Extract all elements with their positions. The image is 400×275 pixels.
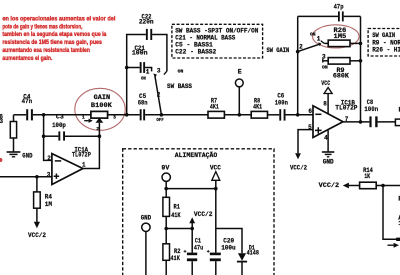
wire: VCC rail down xyxy=(215,180,217,252)
svg-text:aumentamos el gain.: aumentamos el gain. xyxy=(2,55,52,62)
wire: right rail x=360.5 xyxy=(360,16,362,122)
resistor R2 41K xyxy=(163,244,170,260)
svg-text:1K3: 1K3 xyxy=(0,118,3,126)
svg-text:OFF: OFF xyxy=(156,117,164,123)
plus sign IC1A xyxy=(54,174,59,179)
node: SW GAIN common on rail xyxy=(296,50,300,54)
node: VCC rail junction xyxy=(214,187,218,191)
node: E junction xyxy=(238,113,242,117)
svg-text:100p: 100p xyxy=(52,122,66,130)
svg-text:resistencia de 1M5 tiene mas g: resistencia de 1M5 tiene mas gain, pues xyxy=(2,39,102,46)
resistor R1 41K xyxy=(165,189,167,198)
svg-text:1: 1 xyxy=(146,68,150,75)
svg-text:1K: 1K xyxy=(364,173,371,181)
svg-text:47p: 47p xyxy=(334,3,344,11)
node: VCC/2 node xyxy=(190,227,194,231)
svg-text:1: 1 xyxy=(82,115,85,121)
VCC/2 up arrow xyxy=(191,223,193,229)
svg-text:TL072P: TL072P xyxy=(72,152,91,160)
svg-text:1M5: 1M5 xyxy=(334,33,347,41)
svg-text:41K: 41K xyxy=(171,212,181,220)
svg-text:B100K: B100K xyxy=(91,102,113,110)
node: C3 left junction xyxy=(42,134,46,138)
wire: pot wiper stem xyxy=(98,123,100,137)
pot wiper arrow xyxy=(96,118,104,123)
resistor R26 1M5 xyxy=(321,41,324,44)
svg-text:100n: 100n xyxy=(132,50,148,58)
svg-text:VCC: VCC xyxy=(321,80,330,88)
terminal E xyxy=(235,79,243,87)
resistor R8 4K1 xyxy=(251,111,267,118)
switch SW BASS lever xyxy=(153,74,157,78)
capacitor C5 68n xyxy=(140,109,142,120)
svg-text:VCC/2: VCC/2 xyxy=(28,232,46,240)
red mark left edge xyxy=(0,158,2,162)
svg-text:GND: GND xyxy=(22,152,32,160)
svg-text:C22 - BASS2: C22 - BASS2 xyxy=(175,49,216,57)
capacitor C22 220n xyxy=(146,29,148,40)
SW GAIN lever xyxy=(298,44,320,51)
wire: IC1A output up to C3/wiper node xyxy=(83,136,100,168)
svg-text:ON: ON xyxy=(310,32,316,38)
op-amp IC1B TL072P xyxy=(313,106,343,138)
node: SW BASS common junction xyxy=(160,113,164,117)
resistor R7 4K1 xyxy=(208,111,224,118)
svg-text:41K: 41K xyxy=(170,255,180,263)
node: output junction xyxy=(359,120,363,124)
wire: down from R14 junction to pot row xyxy=(383,186,400,240)
node: main/rail junction xyxy=(125,113,129,117)
resistor R4 1M xyxy=(36,177,38,192)
op-amp IC1A TL072P xyxy=(52,154,83,185)
svg-text:47n: 47n xyxy=(22,98,33,106)
capacitor C21 100n xyxy=(127,67,140,69)
svg-text:SW BASS: SW BASS xyxy=(167,83,192,91)
potentiometer GAIN B100K xyxy=(91,111,108,118)
svg-text:en los operacionales aumentas: en los operacionales aumentas el valor d… xyxy=(2,15,115,22)
capacitor 47p xyxy=(298,15,338,17)
svg-text:1M: 1M xyxy=(45,201,52,209)
svg-text:8: 8 xyxy=(323,101,327,108)
svg-text:1: 1 xyxy=(82,161,86,168)
node: C21 rail junction xyxy=(125,66,129,70)
svg-text:R26 - HIGH: R26 - HIGH xyxy=(372,47,400,55)
red ellipse around R26 xyxy=(313,25,360,48)
node: wiper/C3/output junction xyxy=(98,134,102,138)
capacitor C20 100u xyxy=(210,253,221,256)
plus mark C20 xyxy=(207,250,210,253)
svg-text:220n: 220n xyxy=(139,19,154,27)
node: 9V junction xyxy=(164,187,168,191)
svg-text:ALIMENTAÇÃO: ALIMENTAÇÃO xyxy=(175,150,218,160)
svg-text:2: 2 xyxy=(47,155,51,162)
svg-text:3: 3 xyxy=(157,67,161,74)
wire: C22 right to pin3 stub xyxy=(152,35,167,72)
dashed box ALIMENTACAO xyxy=(123,149,274,275)
svg-text:6: 6 xyxy=(308,108,312,115)
svg-text:680K: 680K xyxy=(333,72,350,80)
resistor R6 (labels cut at left edge) xyxy=(10,122,16,139)
svg-text:2: 2 xyxy=(157,91,161,98)
svg-text:TL072P: TL072P xyxy=(335,104,357,112)
svg-text:R1: R1 xyxy=(174,204,181,212)
annotation red handwritten note top-left xyxy=(2,15,115,62)
svg-text:47u: 47u xyxy=(194,244,203,252)
resistor at right edge (cut) xyxy=(395,119,400,126)
node: R26 right on rail xyxy=(359,42,363,46)
wire: input row to pin 3 xyxy=(0,176,52,178)
node: divider junction xyxy=(164,227,168,231)
svg-text:4K1: 4K1 xyxy=(253,103,262,111)
svg-text:3: 3 xyxy=(113,114,116,120)
svg-text:4K1: 4K1 xyxy=(210,103,219,111)
svg-text:tambien en la segunda etapa ve: tambien en la segunda etapa vemos que la xyxy=(2,31,106,38)
dashed info box SW BASS xyxy=(172,24,263,58)
svg-text:VCC/2: VCC/2 xyxy=(290,164,307,172)
dashed info box SW GAIN xyxy=(368,29,400,57)
red circle around GAIN pot xyxy=(75,88,125,130)
ground symbol IC1B xyxy=(322,152,334,157)
wire: 9V to VCC rail xyxy=(166,188,216,190)
svg-text:100u: 100u xyxy=(221,244,236,252)
svg-text:ON: ON xyxy=(178,69,184,75)
svg-text:VCC/2: VCC/2 xyxy=(194,211,213,219)
minus sign IC1A xyxy=(55,160,61,162)
svg-text:pote de gain y tienes mas dist: pote de gain y tienes mas distorsion, xyxy=(2,23,82,30)
capacitor C3 100p xyxy=(44,135,59,137)
capacitor C8 100n xyxy=(369,116,371,127)
capacitor C4 47n xyxy=(26,109,28,120)
node: C4/C3/pin2 junction xyxy=(42,113,46,117)
capacitor C1 47u xyxy=(191,229,193,253)
svg-text:GND: GND xyxy=(141,215,151,223)
node: feedback rail junction on main wire xyxy=(296,113,300,117)
capacitor C6 100n xyxy=(279,109,281,120)
node: R14 right junction xyxy=(381,184,385,188)
svg-text:SW GAIN: SW GAIN xyxy=(266,47,289,55)
svg-text:E: E xyxy=(238,69,242,77)
wire: vertical x=43.6 down to pin2 xyxy=(44,115,52,161)
plus mark C1 xyxy=(184,250,187,253)
svg-text:68n: 68n xyxy=(138,99,148,107)
contact pin 3 of SW BASS xyxy=(164,71,167,74)
ground symbol left xyxy=(7,152,21,157)
wire: pin 5 to VCC/2 arrow xyxy=(298,130,313,154)
node: R4 junction xyxy=(35,175,39,179)
minus sign IC1B xyxy=(315,113,321,115)
wire: R6 to ground xyxy=(13,138,15,152)
wire: main signal row y=114.8 xyxy=(14,114,314,116)
svg-text:9V: 9V xyxy=(161,165,170,173)
VCC/2 arrow below R4 xyxy=(36,208,38,222)
svg-text:C3: C3 xyxy=(56,114,64,122)
svg-text:VCC/2: VCC/2 xyxy=(319,182,340,190)
svg-text:ON: ON xyxy=(322,64,328,70)
svg-text:GND: GND xyxy=(323,158,334,166)
svg-text:GAIN: GAIN xyxy=(94,94,111,102)
svg-text:100n: 100n xyxy=(364,106,378,114)
diode D1 4148 xyxy=(216,229,242,254)
wire: C4 left corner down to R6 xyxy=(13,115,15,122)
wire: left rail up to C22 row xyxy=(127,35,146,115)
svg-text:100n: 100n xyxy=(275,100,288,108)
svg-text:1: 1 xyxy=(317,36,321,43)
svg-text:ON: ON xyxy=(141,75,146,81)
wiper arrow of edge pot xyxy=(388,244,394,246)
wire: divider junction to VCC/2 node xyxy=(166,228,192,230)
node: R9 right on rail xyxy=(359,59,363,63)
svg-text:aumentando esa resistencia tam: aumentando esa resistencia tambien xyxy=(2,47,90,54)
wire: left feedback rail x=297.7 xyxy=(297,16,299,114)
contact pin 1 of SW BASS xyxy=(145,68,152,72)
svg-text:4148: 4148 xyxy=(247,249,259,257)
plus sign IC1B xyxy=(315,127,322,133)
